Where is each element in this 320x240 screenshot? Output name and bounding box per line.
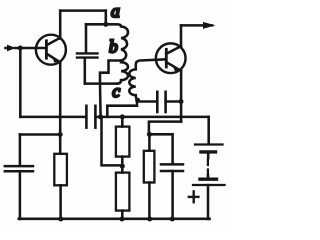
wire b tap staircase xyxy=(100,61,121,117)
wire emitter to R5 column xyxy=(149,122,181,135)
node J12 xyxy=(58,217,63,222)
wire down to C1 xyxy=(85,24,88,52)
wire J13 left xyxy=(20,133,60,136)
wire C6 to rail xyxy=(171,171,174,219)
svg-text:b: b xyxy=(109,36,118,56)
input arrow xyxy=(6,45,16,52)
capacitor C4 xyxy=(157,92,165,112)
resistor R3 xyxy=(116,117,129,173)
node J3 xyxy=(98,114,103,119)
wire secondary bottom to C4 xyxy=(138,100,156,103)
wire output with arrow xyxy=(181,22,215,29)
resistor R5 xyxy=(144,134,155,219)
node J11 xyxy=(170,217,175,222)
wire C4 to emitter node xyxy=(166,100,181,103)
capacitor C1 tank xyxy=(77,53,98,57)
wire left down to C2 xyxy=(19,135,22,166)
capacitor C2 xyxy=(5,166,33,171)
capacitor C6 xyxy=(161,164,183,171)
inductor L2 secondary xyxy=(129,59,166,100)
resistor R4 xyxy=(116,173,129,219)
wire bias line left xyxy=(20,116,85,119)
wire bias line right to battery xyxy=(95,116,208,119)
wire C1 down to c-line xyxy=(84,59,87,84)
node J6 xyxy=(120,217,125,222)
wire input to T1 base xyxy=(15,47,46,50)
node J9 xyxy=(147,132,152,137)
node J1 input junction xyxy=(18,46,23,51)
node secondary bottom xyxy=(135,98,140,103)
wire Q1 collector up xyxy=(59,11,62,39)
svg-text:c: c xyxy=(112,81,120,101)
wire emitter Q1 down xyxy=(59,63,62,135)
transistor Q2 xyxy=(156,43,186,73)
inductor L1 primary lower b-c xyxy=(117,62,128,83)
node a junction xyxy=(103,22,108,27)
node J5 divider tap xyxy=(120,164,125,169)
wire J9 to C6 xyxy=(149,134,172,163)
wire c-node link down-left xyxy=(107,100,137,117)
node J4 xyxy=(120,114,125,119)
wire J3 down to divider tap xyxy=(102,117,121,165)
svg-text:a: a xyxy=(111,1,120,21)
capacitor C5 coupling xyxy=(86,106,95,128)
wire c-line horizontal xyxy=(85,82,117,85)
wire node a to tank cap xyxy=(86,23,106,26)
battery B1 xyxy=(189,117,225,219)
wire Q2 collector up xyxy=(180,25,183,46)
wire top rail xyxy=(60,9,106,12)
wire J1 down to coupling line xyxy=(19,48,22,117)
wire Q2 emitter down xyxy=(180,71,183,122)
wire bottom rail xyxy=(19,218,210,221)
node J13 xyxy=(58,132,63,137)
node J8 emitter junction xyxy=(179,99,184,104)
wire down to node a xyxy=(105,11,108,25)
resistor R2 xyxy=(54,135,67,220)
inductor L1 primary upper a-b xyxy=(106,24,128,60)
transistor Q1 xyxy=(36,35,66,65)
node J10 xyxy=(147,217,152,222)
wire C2 to rail xyxy=(19,171,22,219)
